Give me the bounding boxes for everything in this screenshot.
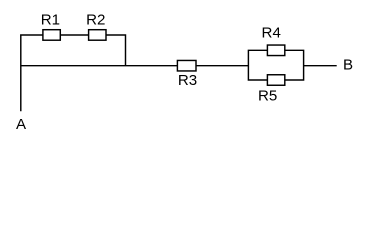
svg-text:B: B bbox=[343, 56, 353, 73]
svg-text:R3: R3 bbox=[178, 72, 197, 89]
wire bbox=[106, 35, 126, 66]
resistor R4 bbox=[267, 45, 284, 56]
resistor R3 bbox=[177, 60, 196, 70]
wire bbox=[285, 50, 304, 80]
svg-text:A: A bbox=[16, 116, 27, 133]
wire bbox=[304, 65, 337, 67]
wire bbox=[21, 65, 178, 67]
resistor R5 bbox=[267, 75, 284, 86]
wire bbox=[60, 34, 88, 36]
svg-text:R2: R2 bbox=[86, 12, 105, 29]
wire bbox=[21, 35, 43, 111]
svg-text:R5: R5 bbox=[258, 88, 277, 105]
wire bbox=[248, 50, 267, 80]
resistor R2 bbox=[89, 30, 106, 41]
svg-text:R4: R4 bbox=[262, 25, 281, 42]
resistor R1 bbox=[43, 30, 60, 41]
wire bbox=[196, 65, 248, 67]
svg-text:R1: R1 bbox=[41, 12, 60, 29]
